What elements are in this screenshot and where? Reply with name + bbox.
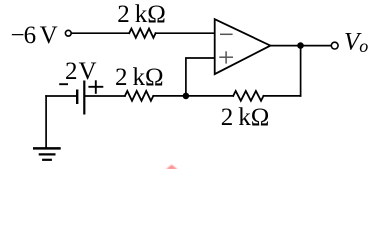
svg-text:2 kΩ: 2 kΩ xyxy=(115,64,164,91)
svg-text:2 kΩ: 2 kΩ xyxy=(221,104,270,131)
svg-text:2V: 2V xyxy=(65,58,97,85)
svg-text:2 kΩ: 2 kΩ xyxy=(117,1,166,28)
svg-text:−6V: −6V xyxy=(11,22,58,49)
